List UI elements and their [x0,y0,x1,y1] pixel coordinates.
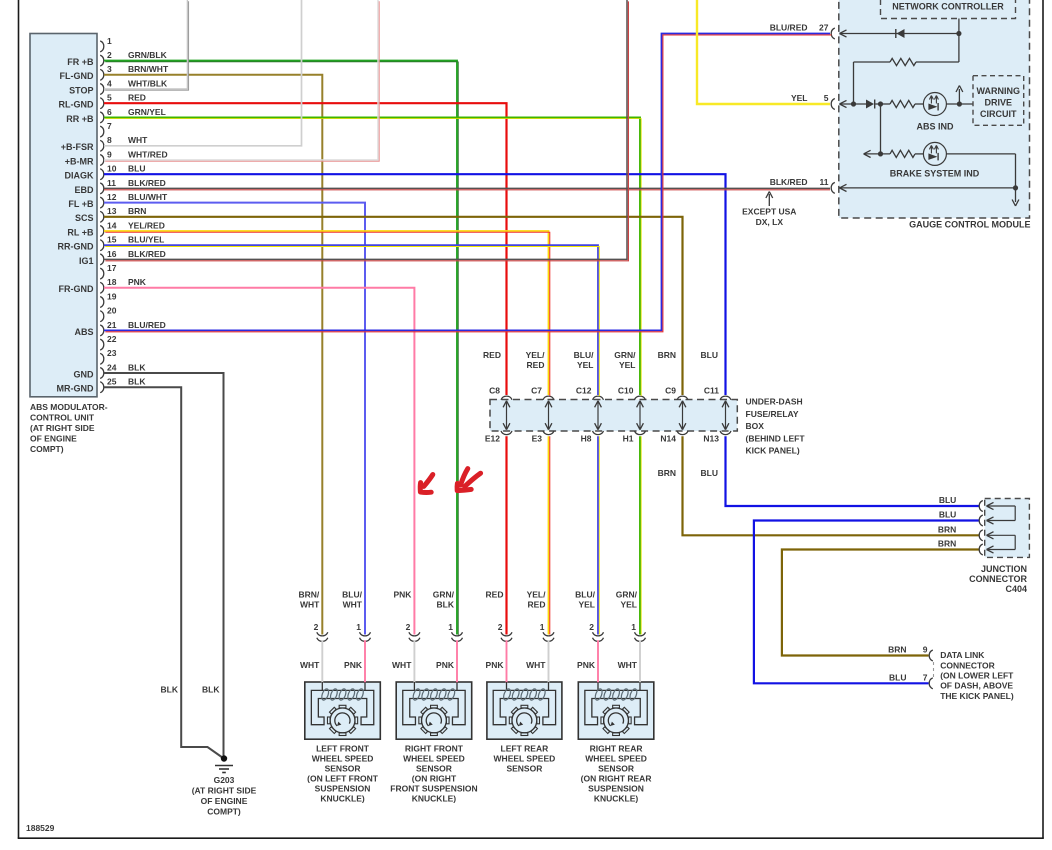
svg-text:WHEEL SPEED: WHEEL SPEED [494,754,556,764]
svg-text:BRN: BRN [888,645,906,655]
svg-text:COMPT): COMPT) [30,444,64,454]
svg-text:YEL/RED: YEL/RED [128,220,165,230]
svg-text:(BEHIND LEFT: (BEHIND LEFT [746,433,806,443]
svg-text:5: 5 [107,93,112,103]
svg-text:BRN: BRN [938,539,956,549]
svg-text:(ON LOWER LEFT: (ON LOWER LEFT [940,671,1014,681]
svg-text:FRONT SUSPENSION: FRONT SUSPENSION [390,784,477,794]
svg-text:WHEEL SPEED: WHEEL SPEED [585,754,647,764]
svg-text:2: 2 [589,622,594,632]
svg-text:H1: H1 [623,434,634,444]
svg-text:7: 7 [107,121,112,131]
svg-text:(ON RIGHT REAR: (ON RIGHT REAR [581,774,652,784]
svg-text:PNK: PNK [486,660,505,670]
svg-text:12: 12 [107,192,117,202]
svg-text:23: 23 [107,348,117,358]
svg-text:YEL/: YEL/ [527,590,547,600]
svg-text:27: 27 [819,23,829,33]
svg-text:H8: H8 [581,434,592,444]
svg-text:11: 11 [820,177,829,187]
svg-text:OF ENGINE: OF ENGINE [30,434,77,444]
svg-text:RED: RED [486,590,504,600]
svg-text:WHT: WHT [300,660,320,670]
svg-text:BLK: BLK [202,685,220,695]
svg-text:SCS: SCS [75,213,94,223]
svg-text:EBD: EBD [74,185,94,195]
svg-text:UNDER-DASH: UNDER-DASH [746,397,803,407]
svg-text:(ON RIGHT: (ON RIGHT [412,774,457,784]
svg-text:BLU: BLU [889,673,906,683]
svg-text:11: 11 [107,178,116,188]
svg-text:OF ENGINE: OF ENGINE [201,796,248,806]
svg-text:KICK PANEL): KICK PANEL) [746,446,800,456]
svg-text:WHEEL SPEED: WHEEL SPEED [312,754,374,764]
svg-text:188529: 188529 [26,823,55,833]
svg-text:BLK: BLK [128,377,146,387]
svg-text:DIAGK: DIAGK [65,171,95,181]
svg-text:FUSE/RELAY: FUSE/RELAY [746,409,799,419]
svg-text:FR +B: FR +B [67,57,94,67]
svg-text:24: 24 [107,362,117,372]
svg-text:RED: RED [527,360,545,370]
svg-text:BLU: BLU [128,164,145,174]
svg-text:JUNCTION: JUNCTION [981,564,1027,574]
svg-text:GRN/: GRN/ [614,350,636,360]
svg-text:KNUCKLE): KNUCKLE) [594,794,639,804]
svg-text:CIRCUIT: CIRCUIT [980,109,1017,119]
svg-text:DX, LX: DX, LX [756,217,784,227]
svg-text:16: 16 [107,249,117,259]
svg-text:OF DASH, ABOVE: OF DASH, ABOVE [940,681,1013,691]
svg-text:WHEEL SPEED: WHEEL SPEED [403,754,465,764]
svg-text:BLU: BLU [701,468,718,478]
svg-text:BLU: BLU [701,350,718,360]
svg-text:C12: C12 [576,386,592,396]
svg-text:C404: C404 [1005,584,1027,594]
svg-text:BRN: BRN [658,468,676,478]
svg-text:(ON LEFT FRONT: (ON LEFT FRONT [307,774,379,784]
svg-text:YEL/: YEL/ [526,350,546,360]
svg-text:BRN: BRN [658,350,676,360]
svg-text:3: 3 [107,64,112,74]
svg-text:COMPT): COMPT) [207,807,241,817]
svg-text:SENSOR: SENSOR [325,764,361,774]
svg-text:20: 20 [107,306,117,316]
svg-text:PNK: PNK [393,590,412,600]
svg-text:GRN/BLK: GRN/BLK [128,50,168,60]
svg-text:SENSOR: SENSOR [506,764,542,774]
svg-text:RIGHT FRONT: RIGHT FRONT [405,744,464,754]
svg-text:BLU: BLU [939,510,956,520]
svg-text:GND: GND [74,369,95,379]
svg-text:WHT: WHT [128,135,148,145]
svg-text:9: 9 [107,149,112,159]
svg-text:DATA LINK: DATA LINK [940,650,985,660]
svg-text:BLU/: BLU/ [575,590,595,600]
svg-text:WHT/BLK: WHT/BLK [128,78,168,88]
svg-text:BRN/: BRN/ [299,590,320,600]
svg-text:CONNECTOR: CONNECTOR [940,660,995,670]
svg-text:FL-GND: FL-GND [60,71,94,81]
svg-text:YEL: YEL [620,600,637,610]
svg-text:RR +B: RR +B [66,114,94,124]
svg-text:WHT: WHT [300,600,320,610]
svg-text:GRN/: GRN/ [616,590,638,600]
svg-text:BLK/RED: BLK/RED [128,178,166,188]
svg-text:CONTROL UNIT: CONTROL UNIT [30,413,95,423]
svg-text:21: 21 [107,320,117,330]
svg-text:15: 15 [107,235,117,245]
svg-text:C7: C7 [531,386,542,396]
svg-text:RR-GND: RR-GND [58,242,94,252]
svg-text:+B-FSR: +B-FSR [61,142,94,152]
svg-text:N13: N13 [703,434,719,444]
svg-text:SENSOR: SENSOR [598,764,634,774]
svg-text:BLK: BLK [161,685,179,695]
svg-text:(AT RIGHT SIDE: (AT RIGHT SIDE [30,423,95,433]
svg-text:9: 9 [923,645,928,655]
svg-text:RED: RED [483,350,501,360]
svg-text:THE KICK PANEL): THE KICK PANEL) [940,691,1014,701]
svg-text:(AT RIGHT SIDE: (AT RIGHT SIDE [192,786,257,796]
svg-text:FR-GND: FR-GND [59,284,94,294]
svg-text:1: 1 [631,622,636,632]
svg-text:RED: RED [528,600,546,610]
svg-text:LEFT FRONT: LEFT FRONT [316,744,370,754]
svg-text:BLK: BLK [437,600,455,610]
svg-text:BLK/RED: BLK/RED [770,177,808,187]
svg-text:1: 1 [107,36,112,46]
svg-text:YEL: YEL [577,360,594,370]
svg-text:19: 19 [107,291,117,301]
svg-text:1: 1 [448,622,453,632]
svg-text:C11: C11 [704,386,719,396]
svg-text:ABS IND: ABS IND [916,122,954,132]
svg-text:EXCEPT USA: EXCEPT USA [742,207,796,217]
svg-text:CONNECTOR: CONNECTOR [969,574,1027,584]
svg-text:1: 1 [540,622,545,632]
svg-text:ABS: ABS [74,327,93,337]
svg-text:2: 2 [406,622,411,632]
svg-text:4: 4 [107,78,112,88]
svg-text:BLU: BLU [939,495,956,505]
svg-text:STOP: STOP [69,85,93,95]
svg-text:FL +B: FL +B [68,199,94,209]
svg-text:PNK: PNK [344,660,363,670]
svg-text:RL-GND: RL-GND [59,100,94,110]
svg-text:BRN/WHT: BRN/WHT [128,64,169,74]
svg-text:C10: C10 [618,386,634,396]
svg-text:BLU/RED: BLU/RED [128,320,166,330]
svg-text:MR-GND: MR-GND [57,384,94,394]
svg-text:BLU/: BLU/ [342,590,362,600]
svg-text:17: 17 [107,263,117,273]
svg-text:PNK: PNK [436,660,455,670]
svg-text:YEL: YEL [791,93,808,103]
svg-text:BRN: BRN [128,206,146,216]
svg-text:GRN/YEL: GRN/YEL [128,107,166,117]
svg-text:C8: C8 [489,386,500,396]
svg-text:2: 2 [498,622,503,632]
svg-text:WHT: WHT [526,660,546,670]
svg-text:WHT/RED: WHT/RED [128,149,168,159]
svg-text:C9: C9 [665,386,676,396]
svg-text:WARNING: WARNING [977,86,1021,96]
svg-text:1: 1 [356,622,361,632]
svg-text:YEL: YEL [619,360,636,370]
svg-text:BLK/RED: BLK/RED [128,249,166,259]
svg-text:GRN/: GRN/ [433,590,455,600]
svg-text:13: 13 [107,206,117,216]
svg-text:E3: E3 [532,434,543,444]
svg-text:RIGHT REAR: RIGHT REAR [590,744,643,754]
svg-text:PNK: PNK [128,277,147,287]
svg-text:WHT: WHT [343,600,363,610]
svg-text:PNK: PNK [577,660,596,670]
svg-text:YEL: YEL [578,600,595,610]
svg-text:14: 14 [107,220,117,230]
svg-text:BLU/: BLU/ [574,350,594,360]
svg-text:BRN: BRN [938,525,956,535]
svg-text:SUSPENSION: SUSPENSION [588,784,644,794]
svg-text:2: 2 [107,50,112,60]
svg-text:WHT: WHT [392,660,412,670]
svg-text:WHT: WHT [618,660,638,670]
svg-text:RED: RED [128,93,146,103]
svg-text:BRAKE SYSTEM IND: BRAKE SYSTEM IND [890,169,980,179]
svg-text:BLU/WHT: BLU/WHT [128,192,168,202]
svg-text:GAUGE CONTROL MODULE: GAUGE CONTROL MODULE [909,220,1030,230]
svg-text:SUSPENSION: SUSPENSION [315,784,371,794]
svg-text:10: 10 [107,164,117,174]
svg-text:6: 6 [107,107,112,117]
svg-text:2: 2 [314,622,319,632]
svg-text:LEFT REAR: LEFT REAR [501,744,549,754]
svg-text:18: 18 [107,277,117,287]
svg-text:5: 5 [824,93,829,103]
svg-text:25: 25 [107,377,117,387]
svg-text:E12: E12 [485,434,500,444]
svg-text:DRIVE: DRIVE [985,98,1013,108]
svg-text:IG1: IG1 [79,256,94,266]
svg-text:NETWORK CONTROLLER: NETWORK CONTROLLER [892,2,1004,12]
svg-text:7: 7 [923,673,928,683]
svg-text:8: 8 [107,135,112,145]
svg-text:N14: N14 [660,434,676,444]
svg-text:BLK: BLK [128,362,146,372]
svg-text:BOX: BOX [746,421,765,431]
svg-text:KNUCKLE): KNUCKLE) [412,794,457,804]
svg-text:SENSOR: SENSOR [416,764,452,774]
svg-text:ABS MODULATOR-: ABS MODULATOR- [30,402,108,412]
svg-text:RL +B: RL +B [67,227,94,237]
svg-text:+B-MR: +B-MR [65,156,94,166]
svg-text:BLU/RED: BLU/RED [770,23,808,33]
svg-text:G203: G203 [214,775,235,785]
svg-text:BLU/YEL: BLU/YEL [128,235,164,245]
svg-text:22: 22 [107,334,117,344]
svg-text:KNUCKLE): KNUCKLE) [320,794,365,804]
